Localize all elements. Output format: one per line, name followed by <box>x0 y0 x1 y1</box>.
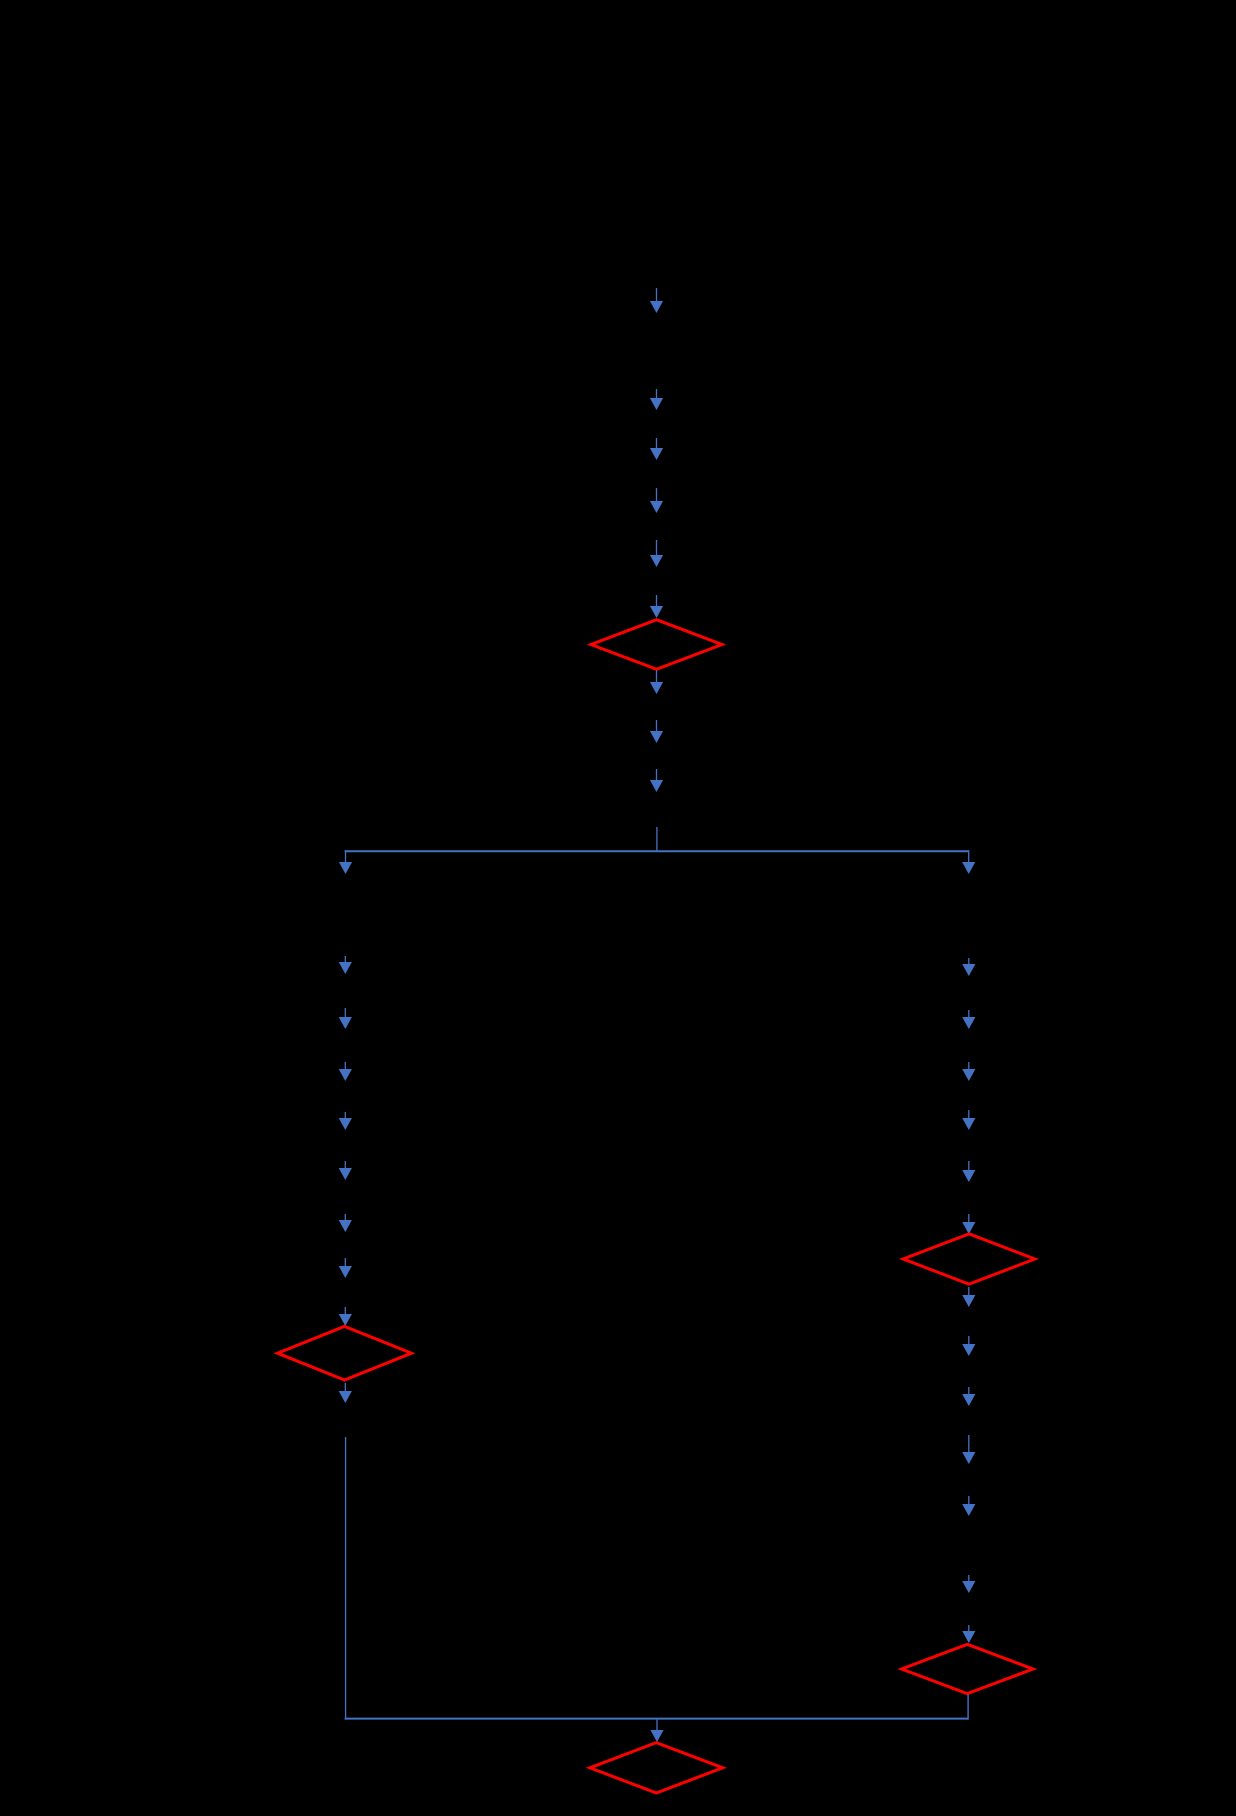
flow arrow A3 (step 2 to step 3) <box>650 438 663 460</box>
right branch arrow R9 <box>962 1387 975 1406</box>
decision diamond D4 <box>902 1644 1033 1693</box>
right branch arrow R1 <box>962 958 975 976</box>
right branch arrow R3 <box>962 1062 975 1081</box>
flow arrow A2 (step 1 to step 2) <box>650 389 663 410</box>
right branch arrow R10 <box>962 1435 975 1464</box>
left branch arrow L5 <box>339 1161 352 1180</box>
left branch arrow L4 <box>339 1112 352 1130</box>
right branch arrow R6 (into decision D3) <box>962 1214 975 1234</box>
wire: left branch down-line to merge <box>345 1437 347 1720</box>
right branch arrow R12 <box>962 1575 975 1593</box>
flow arrow A1 (into step 1) <box>650 288 663 313</box>
flow arrow A8 <box>650 720 663 743</box>
left branch arrow L7 <box>339 1258 352 1278</box>
right branch arrow R4 <box>962 1110 975 1130</box>
flow arrow A4 (step 3 to step 4) <box>650 488 663 513</box>
wire: branch stem from center <box>656 827 658 851</box>
decision diamond D1 <box>591 620 722 670</box>
flow arrow into final decision D5 <box>650 1720 663 1742</box>
left branch arrow L3 <box>339 1062 352 1081</box>
left branch arrow L2 <box>339 1008 352 1029</box>
flow arrow A9 <box>650 769 663 792</box>
left branch arrow L9 (out of decision D2) <box>339 1383 352 1403</box>
flow arrow into right branch <box>962 850 975 874</box>
left branch arrow L6 <box>339 1214 352 1232</box>
decision diamond D5 (final) <box>590 1743 723 1793</box>
right branch arrow R11 <box>962 1496 975 1516</box>
wire: bottom merge horizontal rail <box>345 1718 969 1720</box>
left branch arrow L1 <box>339 956 352 974</box>
right branch arrow R13 (into decision D4) <box>962 1625 975 1643</box>
flow arrow A5 (step 4 to step 5) <box>650 540 663 567</box>
decision diamond D3 <box>903 1234 1035 1284</box>
right branch arrow R8 <box>962 1336 975 1356</box>
wire: right branch down-line from decision D4 <box>967 1695 969 1720</box>
wire: branch horizontal rail <box>345 850 969 852</box>
right branch arrow R5 <box>962 1161 975 1182</box>
right branch arrow R2 <box>962 1010 975 1029</box>
flow arrow A7 (out of decision D1) <box>650 670 663 694</box>
right branch arrow R7 (out of decision D3) <box>962 1287 975 1307</box>
flow arrow into left branch <box>339 850 352 874</box>
left branch arrow L8 (into decision D2) <box>339 1307 352 1326</box>
decision diamond D2 <box>278 1326 412 1380</box>
flow arrow A6 (step 5 into decision D1) <box>650 595 663 618</box>
